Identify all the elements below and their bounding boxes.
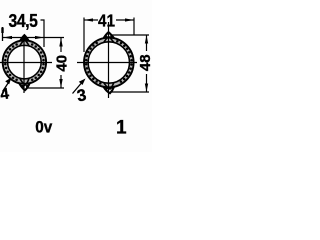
left extension line <box>83 18 85 53</box>
inner contour <box>8 45 42 79</box>
41 arrows <box>84 18 93 21</box>
top tip <box>104 32 114 38</box>
wall thickness arrow <box>3 83 9 92</box>
svg-text:0v: 0v <box>35 118 52 137</box>
40 dim arrows <box>59 38 62 47</box>
wall halftone ring <box>5 43 44 82</box>
dimension text 40 (rotated) <box>53 54 70 73</box>
left extension line <box>2 27 4 41</box>
dimension line 34,5 and top extension for 40 <box>3 37 64 39</box>
inner contour <box>88 42 129 83</box>
bottom extension for 48 <box>110 91 149 93</box>
wall stipple dots <box>4 37 45 87</box>
horizontal centerline <box>77 62 137 64</box>
inner bottom tip <box>20 78 29 85</box>
vertical centerline <box>108 22 110 98</box>
48 dimension line segments <box>146 35 148 51</box>
outer contour <box>3 40 46 83</box>
wall halftone ring <box>86 40 132 86</box>
inner bottom tip <box>104 83 114 89</box>
arrow right of 34,5 dim <box>35 36 44 39</box>
right extension line with tick <box>41 20 45 47</box>
svg-text:34,5: 34,5 <box>9 10 39 32</box>
inner top tip <box>104 36 114 42</box>
outer contour <box>84 38 134 88</box>
dimension line 41 (segments around text) <box>84 19 98 21</box>
bottom tip <box>19 83 30 90</box>
48 dim arrows <box>145 35 148 43</box>
horizontal centerline <box>0 62 52 64</box>
svg-text:41: 41 <box>98 10 115 30</box>
bottom extension line for 40 <box>26 87 64 89</box>
wall thickness arrow <box>73 84 82 94</box>
dimension text 48 (rotated) <box>137 53 154 72</box>
40 dimension line (two segments with text gap) <box>60 38 62 52</box>
svg-text:40: 40 <box>53 55 70 72</box>
extension line end blob <box>1 28 3 34</box>
right extension corner <box>133 18 135 36</box>
inner top tip <box>20 40 29 46</box>
top extension for 48 <box>112 34 149 36</box>
top tip <box>20 35 30 41</box>
arrow left of 34,5 dim <box>3 36 12 39</box>
vertical centerline <box>23 41 25 93</box>
bottom tip <box>104 87 114 93</box>
svg-text:48: 48 <box>137 54 152 71</box>
svg-text:1: 1 <box>116 118 127 139</box>
wall stipple dots <box>85 35 133 89</box>
